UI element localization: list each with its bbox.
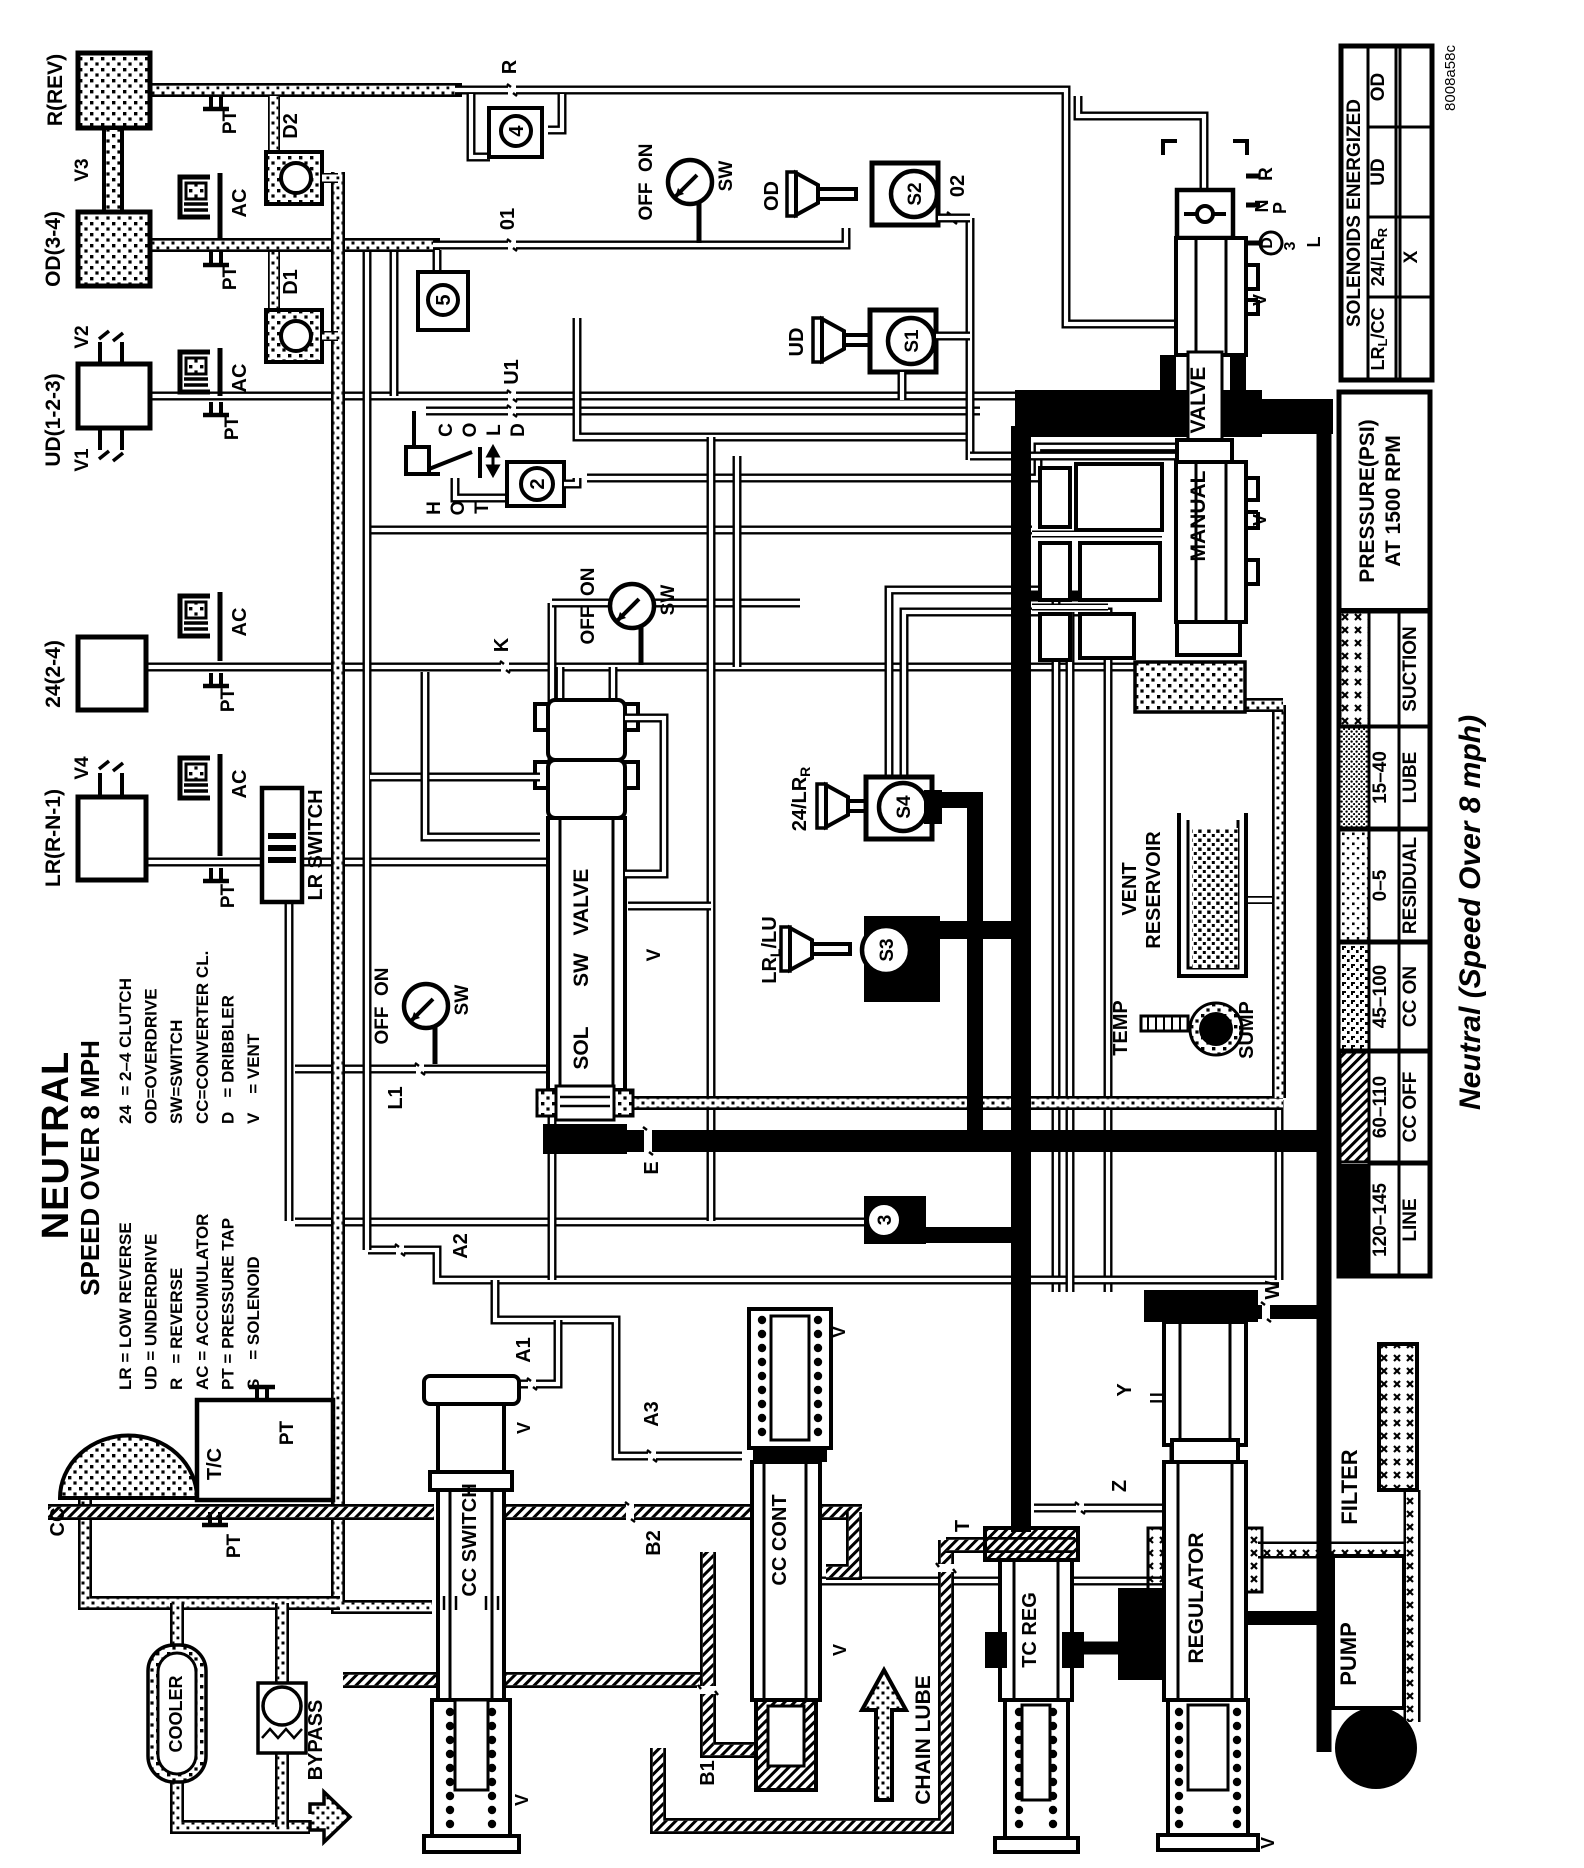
- svg-text:AC: AC: [229, 770, 251, 799]
- torque converter T/C box: [197, 1400, 333, 1500]
- cooler out arrow: [310, 1792, 350, 1842]
- CC SWITCH valve: [424, 1376, 519, 1404]
- wire L1 line: [285, 902, 294, 1221]
- svg-text:K: K: [491, 637, 513, 652]
- wire 01 line: [433, 228, 846, 245]
- svg-text:AC = ACCUMULATOR: AC = ACCUMULATOR: [193, 1214, 212, 1390]
- svg-text:V: V: [1250, 294, 1270, 306]
- wire sump top edge / line y612: [904, 612, 1108, 1292]
- SOL valve black plug: [543, 1124, 627, 1154]
- solenoid plunger LRl/LU plunger: [781, 927, 790, 971]
- svg-text:LR = LOW REVERSE: LR = LOW REVERSE: [116, 1222, 135, 1390]
- svg-text:S4: S4: [894, 795, 915, 819]
- wire sol valve top stub b: [609, 667, 618, 706]
- svg-text:SW: SW: [452, 985, 473, 1016]
- TC REG valve: [985, 1528, 1078, 1560]
- wire A1 A3 jog: [495, 1280, 742, 1456]
- svg-text:45–100: 45–100: [1370, 965, 1391, 1028]
- wire CC switch lower line (hatched channel): [343, 1672, 704, 1688]
- svg-text:PT: PT: [218, 687, 239, 712]
- wire CC cont right feed (hatched channel): [826, 1512, 854, 1572]
- svg-text:5: 5: [433, 294, 455, 305]
- wire Z line: [1034, 1504, 1164, 1513]
- converter dome: [60, 1436, 197, 1498]
- svg-text:SW: SW: [570, 953, 593, 987]
- svg-text:SOLENOIDS ENERGIZED: SOLENOIDS ENERGIZED: [1344, 99, 1365, 327]
- wire D2 out (dotted channel): [322, 173, 338, 183]
- bypass valve: [258, 1683, 306, 1753]
- pump: [1333, 1556, 1404, 1708]
- orifice orifice 4: [501, 116, 531, 146]
- svg-text:V: V: [512, 1794, 532, 1806]
- wire thermal box top line: [426, 407, 980, 416]
- manual valve black center section: [1015, 390, 1262, 437]
- svg-text:PUMP: PUMP: [1336, 1622, 1361, 1686]
- wire S2 feed corner: [970, 452, 1176, 461]
- gear D circle: [1260, 232, 1282, 254]
- thermal valve COLD/HOT: [424, 409, 428, 413]
- svg-text:OFF ON: OFF ON: [636, 143, 657, 220]
- svg-text:D = DRIBBLER: D = DRIBBLER: [218, 995, 237, 1124]
- wire CC main from converter (hatched channel): [48, 1504, 434, 1520]
- solenoid S3: [864, 916, 940, 1002]
- wire center vertical x737: [733, 456, 742, 667]
- wire R clutch feed dotted (dotted channel): [150, 83, 462, 97]
- svg-text:24(2-4): 24(2-4): [42, 640, 65, 708]
- svg-text:A3: A3: [641, 1401, 663, 1427]
- svg-text:LINE: LINE: [1400, 1198, 1421, 1241]
- wire line y530: [368, 526, 1032, 535]
- wire vertical pair x552: [548, 603, 557, 1280]
- accumulator AC1: [180, 173, 220, 239]
- svg-text:UD(1-2-3): UD(1-2-3): [42, 373, 65, 466]
- svg-text:PT: PT: [222, 415, 243, 440]
- wire orifice3 black out (line pressure, black): [920, 1227, 1031, 1243]
- svg-text:3: 3: [1282, 241, 1299, 250]
- pressure table: [1339, 392, 1430, 1276]
- svg-text:CC: CC: [47, 1508, 69, 1537]
- svg-text:V: V: [829, 1326, 849, 1338]
- wire OD clutch feed dotted (dotted channel): [150, 238, 440, 252]
- svg-text:S3: S3: [877, 938, 898, 961]
- wire line y437 from orifice 5: [577, 318, 970, 437]
- svg-text:V: V: [1250, 514, 1270, 526]
- svg-text:LR SWITCH: LR SWITCH: [305, 789, 327, 900]
- node Z node: [1076, 1501, 1084, 1515]
- svg-text:SW: SW: [658, 585, 679, 616]
- wire orifice5 stub: [433, 250, 442, 274]
- manual valve black right arm: [1246, 399, 1333, 434]
- wire orifice2 out: [564, 478, 577, 484]
- svg-text:120–145: 120–145: [1370, 1183, 1391, 1257]
- wire orifice 3 line: [295, 1218, 868, 1227]
- svg-text:T: T: [472, 502, 493, 514]
- wire sol valve feed from K: [425, 672, 540, 837]
- switch SW3 (L1): [433, 1025, 438, 1064]
- svg-text:SW: SW: [716, 161, 737, 192]
- svg-text:D1: D1: [280, 269, 302, 295]
- svg-text:E: E: [641, 1161, 663, 1174]
- wire solenoid feed vertical x970: [966, 218, 975, 460]
- svg-text:CHAIN LUBE: CHAIN LUBE: [912, 1675, 935, 1805]
- svg-text:O: O: [448, 501, 469, 516]
- wire orifice2 link: [455, 478, 507, 498]
- svg-text:OD(3-4): OD(3-4): [42, 211, 65, 287]
- node A1 node: [528, 1377, 536, 1391]
- filter: [1379, 1344, 1417, 1490]
- CC CONT valve accumulator: [749, 1309, 831, 1448]
- svg-text:B2: B2: [643, 1530, 665, 1556]
- pressure tap PT2: [211, 252, 221, 265]
- manual valve sump drain dotted: [1135, 662, 1245, 712]
- wire B1 vertical (hatched channel): [708, 1552, 756, 1750]
- svg-text:V: V: [830, 1644, 850, 1656]
- thermal flapper: [429, 452, 472, 469]
- manual valve white cap: [1177, 440, 1232, 462]
- VALVE white strip: [1188, 352, 1222, 462]
- accumulator AC3: [180, 592, 220, 661]
- pressure row CC ON: [1339, 943, 1369, 1050]
- CC CONT valve: [752, 1462, 820, 1700]
- pressure row LINE: [1339, 1164, 1369, 1276]
- node L1 node: [416, 1062, 424, 1076]
- svg-text:VALVE: VALVE: [1187, 367, 1210, 434]
- svg-text:S = SOLENOID: S = SOLENOID: [244, 1256, 263, 1390]
- svg-text:TEMP: TEMP: [1110, 1000, 1132, 1056]
- svg-text:RESERVOIR: RESERVOIR: [1143, 831, 1165, 949]
- wire manual valve drain stub (dotted channel): [1240, 698, 1283, 712]
- svg-text:PRESSURE(PSI): PRESSURE(PSI): [1356, 419, 1379, 582]
- pressure row RESIDUAL: [1339, 830, 1369, 941]
- wire sol valve top stub a: [556, 667, 565, 706]
- clutch 24(2-4): [78, 637, 146, 710]
- clutch R(REV): [78, 53, 150, 128]
- svg-text:H: H: [424, 501, 445, 515]
- node 02 node: [948, 211, 956, 225]
- node A3 node: [648, 1449, 656, 1463]
- svg-text:LUBE: LUBE: [1400, 752, 1421, 804]
- cooler: [148, 1645, 206, 1782]
- svg-text:UD = UNDERDRIVE: UD = UNDERDRIVE: [142, 1234, 161, 1390]
- spring TC REG spring: [1015, 1708, 1057, 1828]
- manual valve lower body: [1176, 462, 1246, 622]
- chain lube arrow: [862, 1670, 906, 1800]
- svg-text:X: X: [1401, 250, 1422, 263]
- node B2 node: [626, 1501, 634, 1523]
- vent V1: [99, 451, 123, 461]
- svg-text:L: L: [484, 424, 505, 436]
- svg-text:CC SWITCH: CC SWITCH: [459, 1483, 481, 1596]
- manual valve assembly: [1163, 141, 1247, 155]
- wire B2 line (hatched channel): [504, 1504, 862, 1520]
- svg-text:S1: S1: [902, 329, 923, 353]
- svg-text:SUMP: SUMP: [1236, 1001, 1258, 1059]
- temp sensor: [1141, 1016, 1188, 1031]
- wire cooler line from converter (dotted channel): [85, 1498, 340, 1603]
- wire S2 out: [938, 214, 970, 223]
- svg-text:A1: A1: [513, 1337, 535, 1363]
- accumulator AC4: [180, 754, 220, 856]
- wire line y603: [552, 599, 800, 608]
- wire U1 line: [150, 392, 1016, 401]
- node L2 node: [1139, 523, 1147, 537]
- svg-text:A2: A2: [450, 1233, 472, 1259]
- svg-text:OD: OD: [761, 181, 783, 211]
- svg-text:SUCTION: SUCTION: [1400, 626, 1421, 712]
- svg-text:V3: V3: [72, 158, 93, 181]
- spring CC cont spring top: [758, 1316, 822, 1436]
- wire suction to pump (suction channel): [1404, 1490, 1421, 1722]
- pressure tap PT4: [211, 673, 221, 686]
- svg-text:REGULATOR: REGULATOR: [1185, 1532, 1208, 1663]
- CC CONT lower piston: [756, 1700, 816, 1790]
- wire D1 out (dotted channel): [322, 331, 338, 341]
- wire sol valve port y906: [628, 902, 711, 911]
- svg-text:V1: V1: [72, 448, 93, 472]
- svg-text:CC OFF: CC OFF: [1400, 1072, 1421, 1143]
- switch SW1 (OD): [697, 201, 702, 243]
- wire E line black (line pressure, black): [620, 1130, 1326, 1152]
- svg-text:01: 01: [497, 208, 519, 230]
- pressure tap PT6: [257, 1387, 267, 1400]
- svg-text:4: 4: [506, 125, 528, 137]
- valve V3 neck: [104, 128, 122, 212]
- svg-text:PT: PT: [218, 883, 239, 908]
- clutch OD(3-4): [78, 212, 150, 286]
- svg-text:N: N: [1252, 200, 1272, 213]
- manual valve upper body: [1176, 238, 1246, 355]
- wire sump bottom channel (dotted channel): [628, 1096, 1283, 1110]
- orifice 3: [864, 1196, 926, 1244]
- wire S1 down to U1: [898, 372, 907, 400]
- svg-text:Z: Z: [1109, 1480, 1131, 1492]
- clutch LR(R-N-1): [78, 797, 146, 880]
- wire reservoir drain: [1246, 896, 1279, 904]
- sump pickup: [1190, 1003, 1242, 1055]
- svg-text:PT: PT: [277, 1420, 298, 1445]
- solenoid plunger 24LRr plunger: [817, 784, 826, 828]
- svg-text:SOL: SOL: [570, 1026, 593, 1069]
- svg-text:OD=OVERDRIVE: OD=OVERDRIVE: [142, 988, 161, 1124]
- solenoids energized table: [1341, 46, 1432, 380]
- pressure tap PT7: [210, 1512, 220, 1525]
- svg-text:V: V: [1258, 1837, 1278, 1849]
- LR SWITCH: [262, 788, 302, 902]
- svg-text:15–40: 15–40: [1370, 751, 1391, 804]
- gear position indicator: [1177, 190, 1233, 238]
- wire S1 out: [936, 332, 970, 341]
- wire R line: [455, 90, 1176, 324]
- switch SW2 (K): [639, 625, 644, 665]
- solenoid plunger OD solenoid: [787, 172, 796, 216]
- svg-text:PT: PT: [224, 1533, 245, 1558]
- svg-text:VALVE: VALVE: [570, 869, 593, 936]
- svg-text:TC REG: TC REG: [1019, 1592, 1041, 1668]
- svg-text:2: 2: [527, 478, 549, 489]
- svg-text:CC CONT: CC CONT: [769, 1494, 791, 1585]
- regulator x-pattern side pockets: [1148, 1528, 1170, 1592]
- node B1 node: [697, 1686, 719, 1694]
- orifice orifice 5: [428, 285, 458, 315]
- svg-text:0–5: 0–5: [1370, 869, 1391, 901]
- svg-text:UD: UD: [786, 328, 808, 357]
- wire black branch y590 (line pressure, black): [1024, 591, 1108, 602]
- svg-text:60–110: 60–110: [1370, 1076, 1391, 1138]
- svg-text:VENT: VENT: [1119, 862, 1141, 915]
- wire chain lube / bottom line (hatched channel): [658, 1540, 946, 1826]
- wire bypass feed (dotted channel): [275, 1603, 289, 1688]
- svg-text:OFF ON: OFF ON: [372, 967, 393, 1044]
- svg-text:AT 1500 RPM: AT 1500 RPM: [1382, 435, 1405, 567]
- svg-text:3: 3: [875, 1215, 896, 1226]
- node 01 node: [508, 238, 516, 252]
- wire L1 horizontal: [295, 1065, 550, 1074]
- svg-text:PT: PT: [220, 109, 241, 134]
- svg-text:PT = PRESSURE TAP: PT = PRESSURE TAP: [218, 1218, 237, 1390]
- solenoid S2: [872, 163, 938, 225]
- svg-text:R(REV): R(REV): [44, 54, 67, 126]
- wire black vert B (line pressure, black): [1011, 426, 1031, 1532]
- wire valve complex channel y534: [1032, 531, 1162, 538]
- node T node: [935, 1564, 957, 1572]
- solenoid S1: [870, 310, 936, 372]
- regulator black pockets: [1118, 1588, 1164, 1680]
- wire line y478 to valve complex: [587, 447, 1176, 478]
- wire sump drain verticals a: [1066, 612, 1075, 1292]
- pressure row SUCTION: [1339, 612, 1369, 726]
- wire suction line (suction channel): [1258, 1542, 1412, 1559]
- vent V2: [99, 331, 123, 341]
- spring CC switch spring: [446, 1708, 496, 1828]
- svg-text:R = REVERSE: R = REVERSE: [167, 1268, 186, 1390]
- svg-text:V = VENT: V = VENT: [244, 1033, 263, 1124]
- svg-text:BYPASS: BYPASS: [305, 1700, 327, 1781]
- wire orifice4 loop: [471, 94, 490, 157]
- svg-text:AC: AC: [229, 364, 251, 393]
- svg-text:AC: AC: [229, 189, 251, 218]
- wire sol valve feed y777: [370, 773, 540, 782]
- wire vertical from OD channel x367: [363, 252, 372, 1250]
- pressure row CC OFF: [1339, 1052, 1369, 1162]
- svg-text:L1: L1: [385, 1086, 407, 1109]
- svg-text:S2: S2: [905, 182, 926, 205]
- node E node: [644, 1126, 652, 1156]
- wire D1 feed (dotted channel): [268, 252, 280, 312]
- svg-text:8008a58c: 8008a58c: [1442, 45, 1459, 111]
- CC switch spring: [432, 1700, 510, 1836]
- svg-text:RESIDUAL: RESIDUAL: [1400, 837, 1421, 935]
- wire vertical x394: [390, 252, 399, 396]
- wire valve complex channel y607: [1032, 604, 1108, 611]
- svg-text:Neutral (Speed Over 8 mph): Neutral (Speed Over 8 mph): [1454, 715, 1487, 1110]
- svg-text:V: V: [514, 1422, 534, 1434]
- svg-text:FILTER: FILTER: [1337, 1449, 1362, 1524]
- svg-text:D: D: [1259, 237, 1276, 249]
- node U1 node: [508, 389, 516, 403]
- wire bypass out (dotted channel): [275, 1750, 289, 1827]
- wire main black line C (line pressure, black): [1317, 410, 1332, 1752]
- pressure tap PT1: [211, 96, 221, 109]
- svg-text:AC: AC: [229, 608, 251, 637]
- wire W line (line pressure, black): [1144, 1305, 1318, 1319]
- wire D2 feed (dotted channel): [268, 96, 280, 155]
- regulator spring: [1168, 1700, 1248, 1835]
- svg-text:D2: D2: [280, 113, 302, 139]
- solenoid plunger UD solenoid: [813, 318, 822, 362]
- pressure tap PT5: [211, 868, 221, 881]
- thermal arrow: [488, 447, 498, 475]
- svg-text:24 = 2–4 CLUTCH: 24 = 2–4 CLUTCH: [116, 978, 135, 1124]
- regulator valve: [1144, 1290, 1258, 1322]
- svg-text:NEUTRAL: NEUTRAL: [35, 1051, 77, 1240]
- svg-text:D: D: [508, 423, 529, 437]
- svg-text:O: O: [460, 423, 481, 438]
- wire A1 stub: [518, 1320, 558, 1384]
- svg-text:SW=SWITCH: SW=SWITCH: [167, 1020, 186, 1124]
- svg-text:R: R: [499, 59, 521, 74]
- wire R branch to valve top: [1078, 96, 1204, 188]
- clutch UD(1-2-3): [78, 364, 150, 428]
- svg-text:02: 02: [947, 175, 969, 197]
- wire sump right wall lower: [1275, 1100, 1284, 1280]
- svg-text:R: R: [1256, 167, 1277, 181]
- svg-text:T/C: T/C: [204, 1448, 226, 1480]
- node K node: [501, 660, 509, 674]
- wire LR line: [146, 858, 552, 867]
- node A2 node: [396, 1243, 404, 1257]
- wire S3 to line black (line pressure, black): [934, 921, 1021, 939]
- node W node: [1262, 1301, 1270, 1323]
- svg-text:C: C: [436, 423, 457, 437]
- vent reservoir: [1179, 813, 1246, 976]
- wire regulator to line (line pressure, black): [1246, 1611, 1324, 1625]
- svg-text:UD: UD: [1368, 158, 1389, 185]
- accumulator AC2: [180, 348, 220, 396]
- pressure row LUBE: [1339, 727, 1369, 828]
- wire sol valve loop: [625, 718, 664, 874]
- svg-text:CC ON: CC ON: [1400, 966, 1421, 1027]
- wire line y590 to sump: [889, 590, 1056, 1292]
- orifice orifice 2: [521, 468, 553, 500]
- svg-text:P: P: [1270, 202, 1290, 214]
- svg-text:CC=CONVERTER CL.: CC=CONVERTER CL.: [193, 951, 212, 1124]
- wire TC REG top feed (hatched channel): [946, 1537, 1075, 1553]
- svg-text:U1: U1: [501, 359, 523, 385]
- wire A2 line: [368, 1250, 1279, 1280]
- wire TC REG to regulator black (line pressure, black): [1078, 1642, 1160, 1655]
- node R node: [508, 83, 516, 97]
- wire CC CONT output to regulator Y: [822, 1398, 1174, 1581]
- svg-text:V: V: [644, 948, 665, 961]
- svg-text:T: T: [952, 1520, 974, 1532]
- svg-text:COOLER: COOLER: [166, 1675, 186, 1752]
- svg-text:B1: B1: [697, 1760, 719, 1786]
- svg-text:V2: V2: [72, 325, 93, 348]
- svg-text:W: W: [1262, 1280, 1284, 1299]
- wire cooler out (dotted channel): [177, 1778, 310, 1827]
- svg-text:V4: V4: [72, 756, 93, 780]
- wire S4 black output (line pressure, black): [928, 800, 975, 1141]
- switch valve chambers (L2 area): [1040, 468, 1070, 527]
- wire K line: [146, 663, 1142, 672]
- wire center vertical x711: [707, 437, 716, 1221]
- wire cooler feed (dotted channel): [170, 1603, 184, 1650]
- node U1b node: [508, 404, 516, 418]
- svg-text:SPEED OVER 8 MPH: SPEED OVER 8 MPH: [75, 1040, 105, 1296]
- svg-text:MANUAL: MANUAL: [1187, 470, 1210, 561]
- svg-text:OD: OD: [1368, 73, 1389, 102]
- svg-text:LR(R-N-1): LR(R-N-1): [42, 789, 65, 887]
